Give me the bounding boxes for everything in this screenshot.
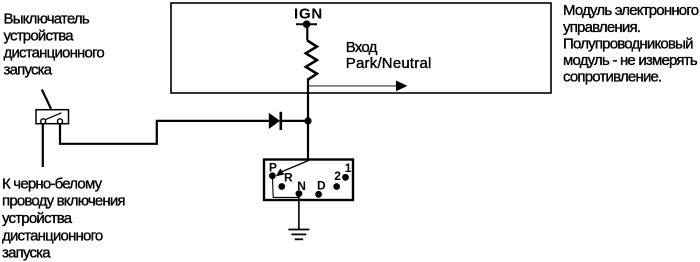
wire switch right to diode	[60, 121, 269, 144]
svg-text:устройства: устройства	[4, 28, 75, 45]
pin D	[315, 178, 326, 197]
svg-text:устройства: устройства	[2, 210, 73, 227]
pin 1	[342, 161, 352, 181]
svg-text:К черно-белому: К черно-белому	[2, 175, 103, 192]
pin N	[296, 179, 306, 197]
pin P	[269, 160, 277, 179]
svg-text:Выключатель: Выключатель	[4, 10, 90, 27]
svg-text:1: 1	[345, 161, 352, 175]
pin 2	[333, 169, 341, 190]
diode	[269, 112, 308, 130]
resistor	[306, 41, 317, 81]
Park/Neutral input arrow	[309, 81, 408, 92]
label: К черно-белому проводу включения устройства дистанционного запуска	[2, 175, 125, 261]
switch contact right	[58, 119, 63, 124]
svg-text:дистанционного: дистанционного	[2, 227, 103, 244]
svg-text:дистанционного: дистанционного	[4, 45, 105, 62]
selector lever	[280, 161, 309, 173]
wire IGN to resistor	[306, 24, 308, 40]
selector switch (PRNDL) box	[264, 160, 353, 201]
wire P contact to ground net	[272, 176, 299, 197]
svg-text:сопротивление.: сопротивление.	[563, 69, 661, 86]
label: Вход Park/Neutral	[346, 39, 432, 72]
label: Модуль электронного управления ...	[563, 2, 699, 85]
wire N contact to ground	[298, 194, 300, 230]
switch contact left	[41, 119, 46, 124]
switch S (remote start) box	[36, 110, 69, 124]
ground	[288, 230, 309, 240]
svg-text:Полупроводниковый: Полупроводниковый	[563, 35, 693, 52]
svg-text:управления.: управления.	[563, 19, 640, 36]
wire switch left to bottom label	[42, 124, 44, 167]
label: Выключатель устройства дистанционного запуска	[4, 10, 105, 78]
svg-text:проводу включения: проводу включения	[2, 193, 125, 210]
wire resistor to selector (vertical main)	[307, 80, 309, 162]
junction node	[304, 117, 311, 124]
svg-text:P: P	[269, 160, 277, 174]
pin R	[278, 171, 293, 190]
selector lever arrowhead	[276, 169, 285, 177]
svg-text:запуска: запуска	[4, 62, 53, 79]
svg-text:Модуль электронного: Модуль электронного	[563, 2, 699, 19]
svg-text:модуль - не измерять: модуль - не измерять	[563, 52, 698, 69]
svg-text:R: R	[284, 171, 293, 185]
svg-text:Park/Neutral: Park/Neutral	[346, 55, 432, 72]
switch lever	[45, 113, 62, 120]
ECM module box	[171, 3, 551, 93]
svg-text:D: D	[317, 178, 326, 192]
svg-text:2: 2	[334, 169, 341, 183]
svg-text:Вход: Вход	[346, 39, 378, 56]
leader line to switch	[42, 90, 51, 109]
svg-text:IGN: IGN	[294, 5, 323, 22]
svg-text:запуска: запуска	[2, 245, 51, 262]
node IGN	[294, 5, 323, 28]
